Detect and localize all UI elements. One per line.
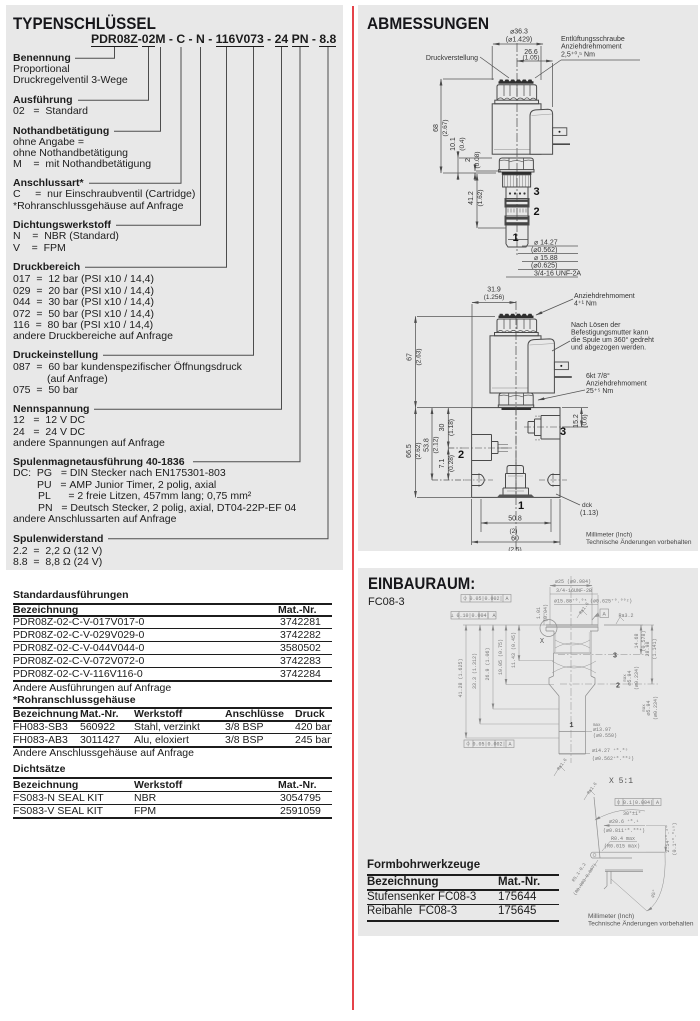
R5.1 diagonal leader <box>577 860 598 891</box>
leader max 13.97 <box>586 731 593 733</box>
svg-text:(1.141): (1.141) <box>652 638 658 659</box>
svg-text:15.2: 15.2 <box>573 414 580 428</box>
datum leader to A <box>592 614 597 620</box>
connector 073 to Druckeinstellung <box>103 47 254 355</box>
svg-text:66.5: 66.5 <box>406 444 413 458</box>
valve 2: centerline <box>515 301 517 557</box>
dim 15.2 <box>581 408 583 427</box>
right gray panel ABMESSUNGEN <box>358 5 698 551</box>
svg-text:3: 3 <box>560 426 566 438</box>
Ra3.2 check <box>616 617 624 624</box>
cavity centerline <box>570 576 572 763</box>
leaders diameter labels <box>506 246 578 277</box>
dim 53.8 <box>431 408 433 480</box>
svg-text:(2.63): (2.63) <box>416 349 423 366</box>
svg-text:⌀25 (⌀0.984): ⌀25 (⌀0.984) <box>555 579 591 585</box>
svg-text:⌽ 0.05|0.002| A: ⌽ 0.05|0.002| A <box>466 741 511 748</box>
svg-text:(2.5): (2.5) <box>508 547 521 552</box>
dim 30 <box>447 408 449 448</box>
svg-text:⌀ 14.27: ⌀ 14.27 <box>534 240 558 247</box>
svg-text:(R0.015 max): (R0.015 max) <box>604 844 640 850</box>
port 1 boss bottom <box>507 466 524 474</box>
svg-text:(1.13): (1.13) <box>580 510 598 517</box>
svg-text:(1.05): (1.05) <box>523 55 540 62</box>
detail X circle <box>540 620 557 637</box>
connector PN to Spulenmagnetausfuehrung <box>193 47 300 462</box>
valve 2: washer under nut <box>495 333 539 336</box>
valve 1: dark seal ring <box>502 172 532 175</box>
valve 1: seal band upper <box>505 199 529 208</box>
svg-text:(⌀0.562⁺⁰.⁰⁰²): (⌀0.562⁺⁰.⁰⁰²) <box>592 756 634 762</box>
svg-text:(2.67): (2.67) <box>442 120 449 137</box>
valve 2: hex nut <box>499 393 533 405</box>
right dim 28.98 <box>651 625 653 684</box>
block centerline <box>515 408 517 498</box>
valve 2: collar under hex <box>498 405 533 407</box>
dim 50.8 <box>481 522 551 524</box>
valve 2 dimension lines <box>416 299 589 545</box>
svg-text:(0.6): (0.6) <box>582 414 589 427</box>
svg-text:30°±1°: 30°±1° <box>623 811 641 817</box>
valve 1: thread ticks between bands <box>508 209 526 213</box>
leader Anziehdrehmoment 4Nm <box>536 299 573 315</box>
groove left cap <box>591 852 593 858</box>
detail X geometry <box>577 797 667 911</box>
valve 1: collar under hex <box>499 170 534 172</box>
title ABMESSUNGEN <box>367 14 489 34</box>
valve 1: coil body <box>492 104 541 154</box>
svg-text:1.01: 1.01 <box>536 607 542 619</box>
svg-text:7.1: 7.1 <box>439 459 446 469</box>
svg-text:X 5:1: X 5:1 <box>609 777 633 786</box>
svg-text:33.3 (1.312): 33.3 (1.312) <box>472 653 478 689</box>
footnote <box>588 913 694 928</box>
svg-text:3/4-16UNF-2B: 3/4-16UNF-2B <box>556 588 592 594</box>
svg-text:(⌀0.550): (⌀0.550) <box>593 733 617 739</box>
svg-text:(1.62): (1.62) <box>477 190 484 207</box>
svg-text:10.1: 10.1 <box>450 137 457 151</box>
valve 2: knurled nut body <box>497 319 537 333</box>
svg-text:2: 2 <box>458 449 464 461</box>
title EINBAURAUM <box>368 574 475 594</box>
svg-text:⌀ 15.88: ⌀ 15.88 <box>534 255 558 262</box>
valve 1: washer under nut <box>495 100 539 104</box>
svg-text:(⌀0.234): (⌀0.234) <box>653 696 659 720</box>
svg-text:2: 2 <box>616 683 620 691</box>
block outline <box>472 408 560 498</box>
svg-text:Befestigungsmutter kann: Befestigungsmutter kann <box>571 330 649 337</box>
valve 2: dark seal ring <box>502 407 532 410</box>
connector M to Nothandbetaetigung <box>114 47 161 131</box>
svg-text:41.28 (1.625): 41.28 (1.625) <box>458 658 464 697</box>
svg-text:A: A <box>603 611 607 618</box>
svg-text:68: 68 <box>433 124 440 132</box>
svg-text:1: 1 <box>569 722 573 730</box>
lower double line <box>605 870 643 871</box>
svg-text:2: 2 <box>465 158 472 162</box>
valve 1: stem bottom tip <box>506 244 528 247</box>
svg-text:Millimeter (Inch): Millimeter (Inch) <box>588 913 634 920</box>
svg-text:2.54⁺⁰.³⁴: 2.54⁺⁰.³⁴ <box>665 825 671 852</box>
dim 36.3 line <box>493 43 543 45</box>
feature control frames <box>451 595 661 806</box>
svg-text:11.43 (0.45): 11.43 (0.45) <box>511 632 517 668</box>
svg-text:dck: dck <box>582 502 593 509</box>
chamfer edge line <box>594 797 600 858</box>
svg-text:X: X <box>540 638 545 646</box>
vertical dim 2.54 <box>665 826 667 852</box>
einbauraum small texts <box>450 579 678 899</box>
svg-text:die Spule um 360° gedreht: die Spule um 360° gedreht <box>571 336 654 344</box>
svg-text:(⌀0.811⁺⁰.⁰⁰⁴): (⌀0.811⁺⁰.⁰⁰⁴) <box>603 828 645 834</box>
dim 10.1 vertical <box>457 158 459 173</box>
svg-text:1: 1 <box>518 500 524 512</box>
table Formbohrwerkzeuge <box>367 860 480 871</box>
cavity mid section <box>554 653 592 676</box>
valve 1: seal band lower <box>505 216 529 225</box>
svg-text:⌽ 0.05|0.002| A: ⌽ 0.05|0.002| A <box>463 595 508 602</box>
valve 2: pin lower <box>554 376 571 378</box>
svg-text:⊥ 0.10|0.004| A: ⊥ 0.10|0.004| A <box>450 613 495 619</box>
svg-text:⌀5.94: ⌀5.94 <box>627 670 633 685</box>
svg-text:Anziehdrehmoment: Anziehdrehmoment <box>561 44 622 51</box>
leader Nach Loesen <box>552 341 570 351</box>
svg-text:(0.28): (0.28) <box>448 455 455 472</box>
connector 24 to Nennspannung <box>94 47 282 409</box>
svg-text:26.9 (1.06): 26.9 (1.06) <box>485 647 491 680</box>
svg-text:Millimeter (Inch): Millimeter (Inch) <box>586 532 632 539</box>
dim 60 <box>472 541 560 543</box>
svg-text:Anziehdrehmoment: Anziehdrehmoment <box>574 293 635 300</box>
svg-text:Ra3.2: Ra3.2 <box>618 613 633 619</box>
svg-text:19.05 (0.75): 19.05 (0.75) <box>498 639 504 675</box>
svg-text:⌀36.3: ⌀36.3 <box>510 29 528 36</box>
svg-text:(0.04): (0.04) <box>543 604 549 622</box>
svg-text:25⁺⁵ Nm: 25⁺⁵ Nm <box>586 388 613 395</box>
dim 20.6 line <box>604 825 645 827</box>
red divider line <box>352 6 354 1010</box>
svg-text:(2.62): (2.62) <box>415 443 422 460</box>
title TYPENSCHLUESSEL <box>13 14 156 34</box>
svg-text:(1.18): (1.18) <box>448 419 455 436</box>
valve 2: coil <box>490 336 541 393</box>
svg-text:3: 3 <box>613 653 617 661</box>
svg-text:(⌀0.234): (⌀0.234) <box>634 666 640 690</box>
valve 1: threaded section 3/4-16 <box>503 175 531 187</box>
svg-text:(0.1⁺⁰.⁰¹⁵): (0.1⁺⁰.⁰¹⁵) <box>672 822 678 855</box>
svg-text:6kt 7/8°: 6kt 7/8° <box>586 372 610 380</box>
svg-text:Druckverstellung: Druckverstellung <box>426 55 478 62</box>
left depth dim lines <box>466 625 559 738</box>
arc to 30deg <box>595 810 645 820</box>
connector C to Anschlussart <box>89 47 181 183</box>
table Rohranschlussgehaeuse <box>13 695 136 706</box>
cavity flare at port 2 <box>549 676 595 696</box>
svg-text:50.8: 50.8 <box>508 516 522 523</box>
valve 1 texts <box>426 29 625 278</box>
svg-text:⌀14.27 ⁺⁰.⁰⁵: ⌀14.27 ⁺⁰.⁰⁵ <box>592 748 628 754</box>
svg-text:⌽ 0.1|0.004| A: ⌽ 0.1|0.004| A <box>617 799 659 806</box>
left ext of top surface <box>463 624 546 626</box>
svg-text:(0.08): (0.08) <box>474 152 481 169</box>
svg-text:30: 30 <box>439 424 446 432</box>
table Standardausfuehrungen <box>13 590 129 601</box>
valve 2 texts <box>406 287 692 554</box>
svg-text:⌀15.88⁺⁰.⁰⁵ (⌀0.625⁺⁰.⁰⁰²): ⌀15.88⁺⁰.⁰⁵ (⌀0.625⁺⁰.⁰⁰²) <box>554 599 632 605</box>
valve 2: connector housing <box>528 339 554 393</box>
svg-text:R0.4 max: R0.4 max <box>611 836 635 842</box>
type code <box>91 34 336 45</box>
leader dck <box>556 494 580 505</box>
valve 1: connector pin lower <box>553 143 570 145</box>
svg-text:(2.12): (2.12) <box>433 437 440 454</box>
svg-text:60: 60 <box>511 536 519 543</box>
valve 1: knurled nut body <box>497 85 537 100</box>
valve 1: connector pin upper <box>553 128 567 136</box>
valve 2: pin upper <box>554 362 568 370</box>
svg-text:(⌀0.562): (⌀0.562) <box>531 247 557 254</box>
port 2 centerline <box>560 683 658 685</box>
leader Druckverstellung <box>480 57 509 78</box>
valve 1: knurled adjustment nut dark band <box>499 81 534 83</box>
svg-text:Anziehdrehmoment: Anziehdrehmoment <box>586 381 647 388</box>
leader 14.27 <box>559 753 590 755</box>
cavity counterbore walls <box>554 631 591 653</box>
connector PDR08Z to Benennung <box>75 47 115 58</box>
groove bar bottom <box>592 857 632 859</box>
leader 6kt <box>538 390 585 400</box>
einbauraum drawing svg <box>358 568 698 936</box>
svg-text:⌀20.6 ⁺⁰.¹: ⌀20.6 ⁺⁰.¹ <box>609 819 639 825</box>
svg-text:31.9: 31.9 <box>487 287 501 294</box>
cavity top surface <box>546 625 598 627</box>
mounting slot left <box>472 475 485 486</box>
svg-text:Nach Lösen der: Nach Lösen der <box>571 322 621 329</box>
valve 1: hex nut <box>499 158 533 170</box>
table Dichtsaetze <box>13 764 66 775</box>
type key text lines <box>13 53 71 64</box>
valve 1 dimension lines <box>441 44 640 277</box>
dim 7.1 <box>447 448 449 480</box>
bore step line <box>559 731 586 733</box>
groove bar top <box>592 851 665 853</box>
dim 41.2 vertical <box>476 174 478 228</box>
valve 1: port 3 cross holes <box>509 192 526 194</box>
valve 1: cartridge stem <box>506 187 528 244</box>
mounting slot right <box>548 475 560 486</box>
svg-text:3: 3 <box>533 186 539 198</box>
svg-text:(2): (2) <box>510 528 518 535</box>
45deg arc <box>647 853 665 911</box>
svg-text:2,5⁺⁰,⁵ Nm: 2,5⁺⁰,⁵ Nm <box>561 51 595 59</box>
svg-text:28.98: 28.98 <box>645 641 651 656</box>
dim 68 vertical <box>440 79 442 173</box>
svg-text:(0.4): (0.4) <box>459 137 466 150</box>
connector N to Dichtungswerkstoff <box>116 47 201 225</box>
svg-text:⌀5.94: ⌀5.94 <box>646 700 652 715</box>
svg-text:41.2: 41.2 <box>468 191 475 205</box>
svg-text:2: 2 <box>533 206 539 218</box>
dim 67/66.5 vertical <box>415 316 417 407</box>
Ra1.6 marks <box>577 610 587 618</box>
R0.4 leader <box>602 842 637 852</box>
valve 2: knurled nut dark band <box>499 316 534 318</box>
valve 1: centerline <box>516 43 518 255</box>
port 2 cavity left <box>472 435 498 461</box>
svg-text:53.8: 53.8 <box>424 438 431 452</box>
cavity flange walls <box>546 627 598 631</box>
svg-text:14.68: 14.68 <box>634 633 640 648</box>
thread cone 60 deg lower <box>552 661 596 673</box>
svg-text:Technische Änderungen vorbehal: Technische Änderungen vorbehalten <box>586 538 692 546</box>
leader Entlueftungsschraube <box>535 60 640 78</box>
svg-text:(⌀0.625): (⌀0.625) <box>531 263 557 270</box>
connector 02 to Ausfuehrung <box>78 47 149 100</box>
svg-text:Technische Änderungen vorbehal: Technische Änderungen vorbehalten <box>588 920 694 928</box>
svg-text:3/4-16 UNF-2A: 3/4-16 UNF-2A <box>534 271 581 278</box>
connector lines SVG <box>0 0 352 580</box>
port 3 cavity right <box>528 416 560 440</box>
thread cone 60 deg upper <box>555 640 590 648</box>
right dim 14.68 <box>640 625 642 654</box>
connector 116 to Druckbereich <box>85 47 227 267</box>
top dim lines <box>550 585 592 587</box>
dim 1.01 line <box>543 613 545 625</box>
connector 8.8 to Spulenwiderstand <box>108 47 328 539</box>
svg-text:1: 1 <box>512 232 518 244</box>
dim 31.9 <box>472 302 516 304</box>
port 3 centerline <box>558 653 648 655</box>
dimensions drawing svg <box>358 5 698 551</box>
dim 2 vertical <box>474 164 476 171</box>
svg-text:Entlüftungsschraube: Entlüftungsschraube <box>561 36 625 43</box>
hook verticals <box>604 871 611 889</box>
cavity bore walls <box>559 696 586 754</box>
svg-text:45°: 45° <box>650 889 658 899</box>
svg-text:Ra1.6: Ra1.6 <box>556 757 569 772</box>
svg-text:(1.256): (1.256) <box>484 294 505 301</box>
dim 26.6 line <box>517 60 553 62</box>
left gray panel <box>6 5 343 570</box>
valve 1: connector housing <box>530 109 553 154</box>
svg-text:67: 67 <box>407 353 414 361</box>
svg-text:4⁺¹ Nm: 4⁺¹ Nm <box>574 301 597 308</box>
svg-text:Ra1.6: Ra1.6 <box>586 781 599 796</box>
right gray panel EINBAURAUM <box>358 568 698 936</box>
svg-text:(⌀1.429): (⌀1.429) <box>506 37 532 44</box>
type-key connector lines <box>75 47 328 539</box>
svg-text:und abgezogen werden.: und abgezogen werden. <box>571 345 646 352</box>
